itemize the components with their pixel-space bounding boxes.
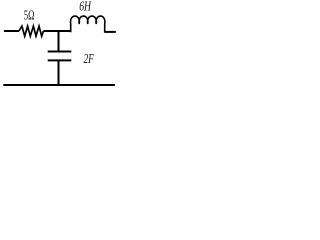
wire bbox=[58, 61, 60, 85]
wire bbox=[4, 30, 19, 32]
wire bbox=[43, 30, 70, 32]
wire bbox=[3, 84, 115, 86]
svg-text:2F: 2F bbox=[84, 51, 95, 66]
inductor L1 bbox=[70, 16, 104, 33]
svg-text:5Ω: 5Ω bbox=[24, 8, 35, 23]
wire bbox=[105, 31, 116, 33]
wire bbox=[58, 31, 60, 51]
resistor R1 bbox=[19, 26, 43, 36]
capacitor C1 bbox=[48, 52, 72, 61]
svg-text:6H: 6H bbox=[79, 0, 91, 15]
